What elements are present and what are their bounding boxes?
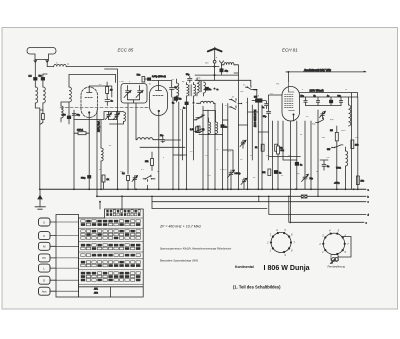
svg-text:Kontinental: Kontinental — [235, 265, 254, 269]
coil L2 — [35, 87, 37, 103]
resistor 1M — [275, 144, 283, 151]
switch bank row 1 contacts — [106, 210, 140, 213]
switch S8 — [327, 145, 343, 151]
capacitor 2.2/5M — [29, 76, 38, 88]
switch bank row 15 contacts — [81, 279, 141, 282]
junction Y1 x296 — [295, 188, 297, 190]
wire T1 leads — [187, 83, 194, 103]
tube V2 cathode — [158, 110, 160, 112]
wire button Ph link — [50, 257, 56, 259]
wire column x268.5 — [268, 116, 270, 160]
junction Y1 x336.8 — [336, 188, 338, 190]
push rod y235.6 — [56, 235, 79, 237]
variable capacitor C5 — [124, 86, 131, 100]
svg-text:Aus: Aus — [42, 290, 48, 294]
switch bank outline — [79, 209, 144, 297]
wire FM box top — [69, 75, 116, 88]
switch bank row 2 contacts — [106, 213, 140, 216]
IF transformer T3 — [209, 111, 218, 135]
resistor 2k — [102, 175, 110, 189]
push button Ph — [39, 254, 51, 262]
wire fm gang top — [74, 112, 124, 120]
wire top bus to x219 — [66, 66, 219, 68]
socket V3 pinout — [318, 229, 349, 259]
inductor L1 (antenna series coil) — [54, 65, 66, 67]
resistor 1,2k — [190, 127, 198, 133]
tube V3 cathode dot — [293, 114, 295, 116]
IF transformer T1 — [187, 85, 196, 97]
svg-text:20k: 20k — [355, 145, 358, 147]
svg-text:2k: 2k — [255, 147, 257, 149]
push button M — [39, 242, 51, 250]
wire y156 link — [269, 156, 300, 158]
junction Y1 x158.8 — [158, 188, 160, 190]
variable capacitor C6 — [136, 86, 143, 100]
tube V3 ECH81 envelope — [282, 87, 300, 122]
svg-text:9-367p: 9-367p — [220, 169, 227, 171]
svg-text:220V, 5mA: 220V, 5mA — [98, 120, 101, 132]
variable capacitor C27 — [241, 178, 247, 189]
svg-text:10k: 10k — [262, 172, 265, 174]
tube V2 ECC85b envelope — [150, 86, 168, 116]
capacitor 320p dark — [81, 176, 91, 180]
svg-text:7M: 7M — [171, 79, 174, 81]
svg-text:K: K — [43, 234, 45, 238]
svg-text:5k: 5k — [179, 99, 181, 101]
coil L7 — [177, 79, 179, 102]
switch S4 — [143, 175, 155, 189]
svg-text:U: U — [43, 220, 45, 224]
capacitor C8 dark — [175, 97, 181, 101]
svg-text:5n: 5n — [172, 103, 174, 105]
switch bank separator y228.2 — [79, 227, 144, 229]
svg-text:1n: 1n — [209, 89, 211, 91]
wire column x290.5 — [290, 121, 292, 223]
wire L3 bottom — [40, 103, 43, 110]
svg-text:2M/0,1: 2M/0,1 — [77, 130, 84, 132]
push button Aus — [39, 287, 51, 295]
svg-text:1n: 1n — [225, 126, 227, 128]
capacitor row C15 — [314, 96, 320, 106]
junction Y1 x272.6 — [272, 188, 274, 190]
resistor M ohm — [330, 126, 338, 144]
variable capacitor C25 — [302, 174, 314, 189]
switch bank row 7 contacts — [81, 237, 141, 240]
switch bank separator y258.8 — [79, 258, 144, 260]
op... tube V1 ECC85a envelope — [81, 87, 98, 118]
switch bank bottom strip — [79, 286, 144, 288]
wire switch drop — [251, 80, 257, 98]
svg-text:0,07µ (6kBnd): 0,07µ (6kBnd) — [152, 76, 166, 78]
wire tube3 top to UKW line — [286, 72, 289, 82]
coil L6 — [124, 112, 126, 121]
variable capacitor C28 — [240, 140, 246, 148]
wire column x208 — [207, 110, 209, 189]
capacitor C13 — [263, 109, 271, 119]
wire antenna left lead — [34, 62, 36, 77]
coil L9 — [222, 63, 235, 65]
resistor 10k vertical — [356, 176, 363, 185]
capacitor 500p — [62, 115, 71, 125]
junction Y1 x262 — [261, 188, 263, 190]
wire Y2 drop left — [96, 110, 98, 196]
junction Y1 x39.8 — [39, 188, 41, 190]
coil L13 — [346, 147, 348, 174]
wire column x178.8 — [178, 102, 180, 189]
resistor 10k mid — [262, 169, 271, 176]
svg-text:m: m — [56, 63, 58, 65]
wire L4 bottom — [68, 102, 70, 116]
wire column x311 — [310, 121, 312, 189]
antenna dipole W1 — [27, 48, 56, 60]
antenna FM dipole W2 — [208, 47, 222, 51]
switch S5 — [194, 115, 202, 121]
resistor on L3 lead — [40, 110, 44, 125]
wire right caps top bus — [300, 97, 346, 106]
wire column x186.5 — [186, 108, 188, 189]
svg-text:m: m — [217, 89, 219, 91]
svg-text:m: m — [246, 102, 248, 104]
tube V1 cathode dot — [88, 111, 90, 113]
push button D — [39, 276, 51, 284]
capacitor C12 — [262, 101, 269, 109]
capacitor row C14 — [301, 96, 308, 106]
junction Y1 x247.5 — [247, 188, 249, 190]
svg-text:Fernbedienung: Fernbedienung — [328, 265, 346, 269]
mechanical link dash line — [60, 107, 149, 109]
capacitor dark C23 — [295, 160, 302, 189]
svg-text:5n: 5n — [300, 165, 302, 167]
wire button L link — [50, 267, 56, 269]
switch bank row 13 contacts — [81, 272, 141, 275]
switch S1 — [246, 86, 258, 91]
wire button K link — [50, 235, 56, 237]
switch bank row 10 contacts — [81, 254, 141, 257]
wire button M link — [50, 245, 56, 247]
svg-text:1M: 1M — [330, 130, 333, 132]
wire column x296 — [283, 121, 297, 160]
junction Y1 x74 — [73, 188, 75, 190]
junction Y1 x231 — [230, 188, 232, 190]
capacitor 5M — [39, 74, 48, 87]
junction Y1 x128 — [127, 188, 129, 190]
svg-text:Besondere Spannslachege UKW: Besondere Spannslachege UKW — [160, 259, 198, 263]
capacitor 5p — [170, 85, 178, 92]
wire column x173 — [172, 97, 174, 189]
capacitor dark C11 — [205, 87, 211, 91]
resistor 20k — [351, 140, 358, 149]
tube V2 anode — [152, 81, 162, 91]
wire column x193.5 — [193, 105, 195, 160]
switch S2 — [229, 99, 242, 105]
wire column x182.6 — [182, 110, 184, 160]
bus Y1 ground — [40, 188, 366, 190]
wire button D link — [50, 279, 56, 281]
wire button Aus link — [50, 290, 56, 292]
junction Y1 x227.8 — [227, 188, 229, 190]
coil L4 — [69, 87, 71, 102]
coil L12 — [137, 138, 153, 140]
wire column x247.5 — [247, 87, 249, 189]
junction Y1 x238.4 — [238, 188, 240, 190]
wire osc link — [199, 111, 223, 135]
switch bank row 9 contacts — [81, 247, 141, 250]
coil L5 — [61, 106, 63, 118]
push button L — [39, 264, 51, 272]
capacitor row C16 — [327, 96, 333, 106]
capacitor row C17 — [338, 96, 343, 106]
svg-text:NSU: NSU — [341, 130, 346, 132]
switch S6 — [194, 129, 202, 133]
switch bank separator y218 — [79, 217, 144, 219]
junction Y1 x345.5 — [345, 188, 347, 190]
svg-text:ECC 85: ECC 85 — [118, 48, 134, 53]
svg-text:I 806 W Dunja: I 806 W Dunja — [264, 264, 310, 272]
svg-text:UW: UW — [240, 91, 244, 93]
resistor 30k — [277, 146, 284, 154]
variable capacitor C4 — [113, 112, 119, 120]
resistor 70k — [137, 75, 145, 83]
wire column x117.5 — [117, 111, 119, 190]
switch S10 — [198, 130, 205, 133]
junction m — [214, 88, 216, 90]
wire tube2 top right — [159, 81, 172, 98]
resistor MU dark — [252, 96, 266, 103]
svg-text:(1. Teil des Schaltbildes): (1. Teil des Schaltbildes) — [233, 285, 281, 290]
switch bank separator y269.8 — [79, 269, 144, 271]
wire column x74 to bus — [73, 110, 75, 189]
junction Y1 x208 — [207, 188, 209, 190]
wire stem to junctions — [214, 63, 216, 80]
svg-text:100V (45mA): 100V (45mA) — [310, 89, 324, 92]
wire column x203 — [202, 106, 204, 189]
wire column x227.8 — [227, 104, 229, 190]
push rod y291.2 — [56, 290, 79, 292]
capacitor 1n dark osc — [221, 125, 227, 129]
wire L2 bottom down — [35, 103, 40, 113]
switch S9 — [196, 115, 205, 119]
switch S7 — [316, 118, 324, 124]
link rows midfield — [173, 112, 269, 155]
resistor R1 — [106, 82, 114, 98]
capacitor 40p dark — [220, 65, 229, 75]
junction Y1 x353.7 — [353, 188, 355, 190]
junction dots Y2 — [96, 195, 98, 197]
variable capacitor C3 — [105, 112, 111, 120]
svg-text:5M: 5M — [39, 76, 42, 78]
junction Y1 x89.2 — [88, 188, 90, 190]
switch bank row 8 contacts — [81, 244, 141, 247]
push rod y246.3 — [56, 245, 79, 247]
socket V3 loop wiring — [339, 237, 352, 258]
wire column x40 to bus — [39, 113, 41, 189]
switch bank row 6 contacts — [81, 233, 141, 236]
wire column x283 — [282, 121, 284, 160]
junction Y1 x178.8 — [178, 188, 180, 190]
svg-text:25k: 25k — [145, 161, 148, 163]
junction Y1 x215 — [214, 188, 216, 190]
tuning capacitor box — [121, 84, 147, 104]
capacitor marks x74 — [72, 114, 81, 117]
svg-text:ECH 81: ECH 81 — [282, 48, 298, 53]
tube V3 hexode grids — [285, 82, 295, 111]
svg-text:UW: UW — [327, 149, 330, 151]
wire column x233 — [223, 150, 233, 189]
variable capacitor C26 — [320, 111, 326, 119]
junction T1 bottom — [193, 102, 195, 104]
junction y160 row — [320, 160, 328, 164]
svg-text:Ph: Ph — [42, 256, 46, 260]
remote coil symbol — [331, 255, 339, 264]
wire column x160 h147 — [140, 146, 185, 148]
wire column x262 — [261, 105, 263, 189]
junction Y1 x258.3 — [257, 188, 259, 190]
wire antenna right lead — [46, 62, 48, 67]
bus Y2 — [97, 195, 366, 197]
junction Y1 x186.5 — [186, 188, 188, 190]
junction Y1 x357.8 — [357, 188, 359, 190]
coil L10 — [349, 97, 351, 126]
resistor 2M horizontal — [74, 130, 89, 135]
svg-text:Anschlußpunkt f.10,7 MHz: Anschlußpunkt f.10,7 MHz — [303, 69, 332, 72]
svg-text:1,2k: 1,2k — [190, 129, 194, 131]
svg-text:Spannungsmessun: 40kΩ/V, Abwei: Spannungsmessun: 40kΩ/V, Abweichmeroneto… — [160, 248, 232, 251]
switch bank row 14 contacts — [81, 275, 141, 278]
push rod y222 — [56, 221, 79, 223]
push rod y280.2 — [56, 279, 79, 281]
capacitor 0,07u — [144, 76, 166, 80]
wire column x136 — [135, 103, 137, 140]
wire column x252.3 — [251, 105, 253, 160]
junction Y1 x278 — [277, 188, 279, 190]
svg-text:1,5M: 1,5M — [119, 81, 124, 83]
wire L9 box — [234, 65, 238, 75]
svg-text:1W: 1W — [288, 155, 291, 157]
wire L5 leads — [61, 102, 69, 122]
wire column x318 — [317, 110, 319, 196]
capacitor dark C20 — [172, 97, 178, 104]
junction Y1 x203 — [202, 188, 204, 190]
tube V2 grid — [153, 95, 164, 97]
junction Y1 x117.5 — [117, 188, 119, 190]
wire right stem to coil — [47, 66, 54, 68]
push rod y257.9 — [56, 257, 79, 259]
coil L11 — [101, 148, 103, 189]
tube V1 anode and grid — [85, 86, 112, 98]
capacitor C10 dark — [183, 102, 188, 110]
svg-text:1n: 1n — [183, 108, 185, 110]
junction Y1 x136 — [135, 188, 137, 190]
resistor 63k — [197, 126, 205, 133]
wire 100V line — [300, 93, 358, 102]
antenna lead arrows — [34, 60, 49, 63]
capacitor dark C22 — [274, 171, 281, 175]
svg-text:D: D — [43, 279, 45, 283]
junction tube3 — [288, 71, 290, 73]
antenna symbol small — [219, 61, 223, 65]
wire column x258.3 — [257, 102, 259, 189]
capacitor C9 — [186, 74, 192, 83]
switch bank row 11 contacts — [81, 261, 141, 264]
junction Y1 x222.6 — [222, 188, 224, 190]
wire Anschluss line — [286, 70, 366, 73]
wire x215 osc down — [214, 103, 216, 189]
svg-text:9-367p: 9-367p — [235, 173, 241, 175]
capacitor 12p — [153, 135, 181, 143]
ground — [35, 189, 46, 209]
svg-text:10k: 10k — [361, 181, 364, 183]
switch bank wire top — [100, 196, 122, 209]
wire column x278 — [277, 121, 279, 189]
push button U — [39, 218, 51, 226]
socket V1/V2 pinout — [266, 228, 295, 257]
switch bank row 4 contacts — [81, 223, 141, 226]
value labels sprinkle — [56, 57, 359, 179]
switch bank separator y252 — [79, 251, 144, 253]
bus Y3 — [152, 201, 366, 203]
capacitor C24 — [322, 165, 329, 171]
wire button U link — [50, 221, 56, 223]
switch bank separator y284.2 — [79, 283, 144, 285]
svg-text:+250p: +250p — [334, 183, 341, 185]
wire mid bus y80 — [195, 79, 251, 81]
junction Y1 x311 — [310, 188, 312, 190]
switch bank row 12 contacts — [81, 264, 141, 267]
wire column x101 — [100, 120, 102, 148]
switch S3 — [229, 106, 236, 110]
wire riser x258.8 — [258, 196, 260, 201]
fuse component — [301, 195, 307, 198]
capacitor C18 — [122, 173, 130, 189]
wire FM dipole stem — [214, 49, 216, 61]
connector circle — [213, 60, 216, 63]
bus Y4 — [152, 208, 267, 210]
coil L8 — [197, 101, 216, 103]
svg-text:1M: 1M — [144, 107, 147, 109]
coil L3 — [43, 87, 45, 103]
junction Y1 x147.5 — [147, 188, 149, 190]
wire mid bus y75 — [195, 74, 238, 76]
junction Y1 x101 — [100, 188, 102, 190]
push button K — [39, 232, 51, 240]
wire right columns — [346, 97, 358, 189]
wire column x305 — [304, 121, 306, 175]
IF transformer T2 — [197, 78, 206, 96]
svg-text:ZF = 460 kHz + 10,7 MHz: ZF = 460 kHz + 10,7 MHz — [159, 225, 201, 229]
wire column x222.6 — [222, 104, 224, 190]
oscillator coil line — [136, 139, 137, 141]
wire column x272.6 — [272, 121, 274, 189]
wire Y3Y4 riser x152 — [151, 196, 153, 208]
bus Y8 — [289, 196, 364, 222]
switch bank row 5 contacts — [81, 230, 141, 233]
junction Y1 x173 — [172, 188, 174, 190]
switch bank row 3 contacts — [81, 220, 141, 223]
wire column x238.4 — [237, 75, 239, 189]
push rod frame — [56, 215, 79, 298]
resistor 150k — [255, 144, 264, 151]
variable capacitor C21 — [228, 170, 241, 180]
wire tube3 left pins — [269, 95, 283, 109]
bus Y7 — [269, 196, 366, 214]
push rod y268.1 — [56, 267, 79, 269]
resistor 25k — [145, 152, 154, 171]
capacitor C2 — [105, 98, 114, 106]
wire fm gang bottom — [109, 120, 124, 124]
variable capacitor C19 — [132, 176, 138, 190]
svg-text:5n: 5n — [327, 166, 329, 168]
wire column x128 — [127, 103, 129, 174]
